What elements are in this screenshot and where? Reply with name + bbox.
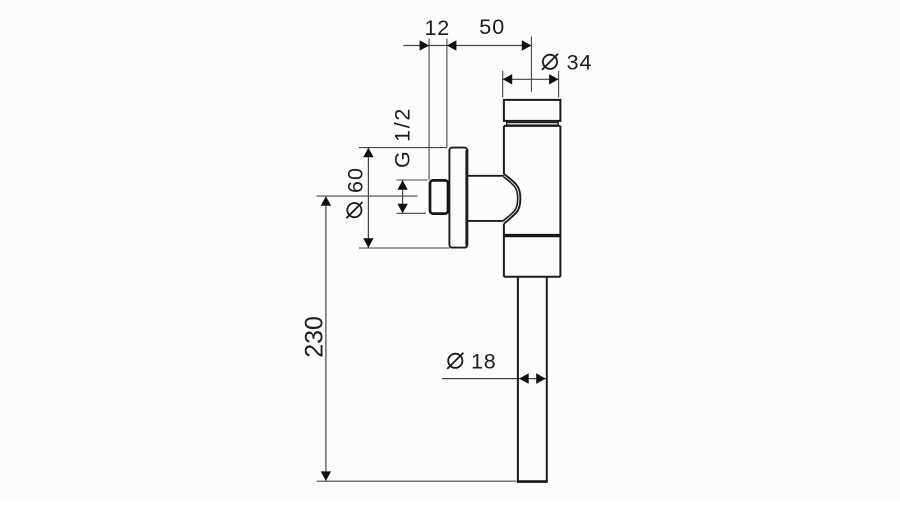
arrow up at y=148 (363, 148, 373, 158)
extension line x=429 (428, 39, 430, 181)
bell outer curve (504, 174, 521, 224)
arrow right at x=429 (12 left, outside) (420, 40, 430, 50)
extension line y=148 (flange top) (359, 147, 447, 149)
arrow down at y=481 (321, 471, 331, 481)
valve body right edge (559, 126, 561, 277)
extension line x=559 (558, 71, 560, 98)
arrow right at x=559 (549, 74, 559, 84)
arrow up at y=196 (321, 196, 331, 206)
wall flange (Ø60) rounded rect (449, 148, 467, 248)
Ø60 dimension line (vertical) (367, 148, 369, 248)
arrow right at x=531 (50 right) (522, 40, 532, 50)
valve body bottom edge (504, 276, 561, 278)
arrow up at y=180 (397, 180, 407, 190)
G1/2 threaded connector (430, 180, 448, 213)
arrow down at y=213 (397, 204, 407, 214)
valve top cap (Ø34) (504, 100, 561, 121)
connecting pipe bottom line (467, 220, 503, 222)
valve body left edge lower (503, 224, 505, 277)
top dimension line (12 / 50) (403, 45, 531, 47)
extension line y=196 (pipe axis) (317, 195, 418, 197)
svg-text:50: 50 (479, 15, 505, 39)
bell inner curve (503, 177, 518, 221)
valve main body top edge (504, 125, 561, 127)
svg-text:60: 60 (343, 167, 367, 193)
arrow left at x=503 (503, 74, 513, 84)
svg-text:G 1/2: G 1/2 (391, 107, 415, 168)
outlet pipe right edge (546, 277, 548, 482)
arrow right at pipe right edge (536, 373, 546, 384)
extension line y=180 (thread top) (397, 179, 428, 181)
svg-text:12: 12 (424, 16, 450, 40)
Ø18 leader line (442, 378, 546, 380)
flange right edge emphasis (465, 150, 467, 246)
thick separator line in body (504, 234, 561, 237)
outlet pipe left edge (517, 277, 519, 482)
outlet pipe bottom edge (517, 480, 548, 483)
extension line x=531 (valve axis) (530, 37, 532, 92)
svg-text:34: 34 (567, 50, 593, 74)
Ø34 dimension line (503, 78, 559, 80)
extension line y=481 (pipe bottom) (317, 480, 517, 482)
230 dimension line (vertical) (325, 196, 327, 481)
arrow left at x=447 (12 right / 50 left) (447, 40, 457, 50)
extension line x=503 (502, 71, 504, 98)
ring below cap (507, 123, 559, 126)
extension line y=213 (thread bottom) (397, 212, 427, 214)
connecting pipe top line (467, 175, 503, 177)
arrow down at y=248 (363, 238, 373, 248)
extension line y=248 (flange bottom) (359, 247, 450, 249)
svg-text:230: 230 (301, 316, 329, 358)
arrow left at pipe left edge (519, 373, 529, 384)
G1/2 dimension line (vertical, short) (402, 180, 404, 213)
extension line x=447 (446, 39, 448, 148)
svg-text:18: 18 (471, 350, 497, 374)
valve body left edge upper (503, 126, 505, 174)
